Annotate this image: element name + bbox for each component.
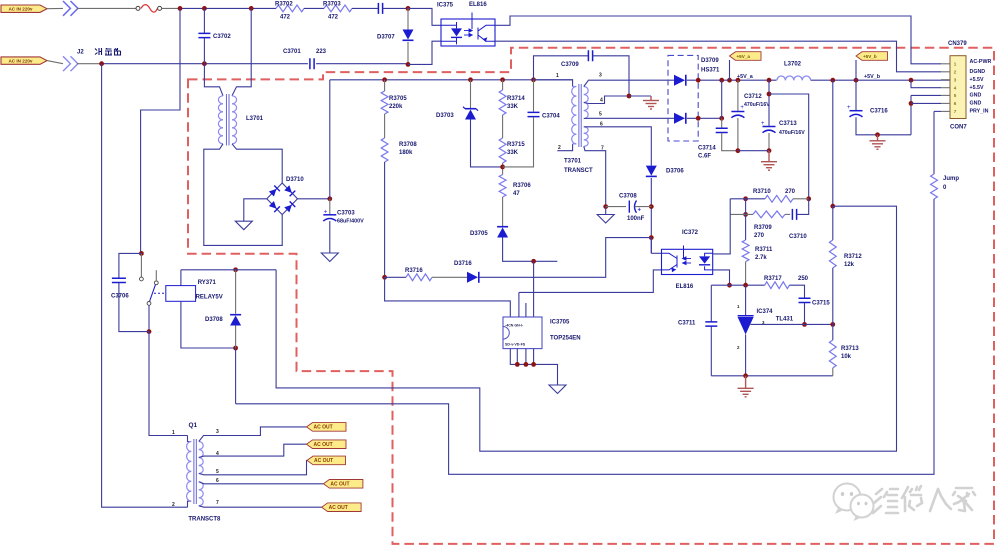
svg-text:D3710: D3710 [286, 177, 304, 183]
svg-text:R3713: R3713 [841, 346, 859, 352]
svg-text:CON7: CON7 [950, 125, 967, 131]
flag +5V_b [856, 52, 888, 61]
wire L3701 left top [204, 64, 223, 96]
wire [407, 42, 409, 65]
capacitor C3716 [847, 105, 863, 117]
bridge diode 4 [284, 201, 295, 212]
resistor R3713 [829, 340, 836, 368]
svg-text:AC IN 220v: AC IN 220v [8, 6, 32, 11]
wire fb bottom rail [711, 375, 833, 377]
svg-text:C3715: C3715 [812, 301, 830, 307]
wire IC3705 stub pin [525, 303, 527, 317]
junction [719, 116, 724, 121]
junction [531, 259, 536, 264]
wire Q1 pin2 bend [188, 501, 192, 507]
wire pin5 [584, 117, 674, 119]
svg-text:+5V_b: +5V_b [863, 54, 877, 59]
capacitor C3709 [588, 50, 592, 61]
switch contact 2 [154, 281, 158, 285]
wire stub NC [155, 270, 157, 281]
wire [407, 8, 409, 29]
junction [524, 362, 529, 367]
wire relay top [181, 269, 276, 271]
wire [745, 199, 747, 215]
resistor R3705 [381, 91, 388, 114]
wire [329, 221, 331, 253]
capacitor C3713 [761, 121, 776, 133]
wire [832, 324, 834, 340]
wire [737, 118, 739, 151]
svg-text:EL816: EL816 [676, 284, 694, 290]
connector CON7 body [950, 56, 966, 119]
wire PRY_IN down [933, 111, 935, 174]
svg-text:R3712: R3712 [844, 254, 862, 260]
svg-text:TRANSCT: TRANSCT [564, 168, 593, 174]
svg-text:470uF/16V: 470uF/16V [779, 130, 805, 136]
wire [47, 61, 63, 64]
ground chassis bridge [235, 221, 252, 230]
svg-text:TL431: TL431 [776, 317, 794, 323]
wire [384, 162, 386, 277]
svg-text:C3701: C3701 [283, 49, 301, 55]
wire [722, 133, 738, 151]
ground earth pin4 [643, 96, 659, 109]
resistor R3709 [753, 211, 785, 218]
svg-text:3: 3 [216, 429, 219, 435]
junction [99, 61, 104, 66]
wire clamp to drain [503, 238, 558, 262]
wire Q1 pin1 bend [188, 436, 192, 442]
flag AC IN 1 [1, 5, 47, 12]
wire [235, 270, 237, 314]
capacitor C3711 [705, 322, 717, 326]
svg-text:IC372: IC372 [682, 230, 699, 236]
pin 5 stub [941, 94, 950, 96]
svg-text:C3708: C3708 [619, 194, 637, 200]
svg-text:AC OUT: AC OUT [314, 442, 333, 448]
svg-text:+5V_b: +5V_b [864, 74, 881, 80]
switch lever [150, 285, 156, 302]
wire D3706 down [650, 178, 652, 253]
pin 3 stub [941, 79, 950, 81]
svg-text:R3702: R3702 [275, 1, 293, 7]
svg-text:RELAY5V: RELAY5V [196, 295, 223, 301]
wire pin4 to gnd [629, 95, 651, 97]
diode D3708 [230, 315, 241, 326]
svg-text:+: + [638, 208, 642, 214]
Q1 secondary upper [199, 442, 203, 474]
svg-text:D3703: D3703 [436, 113, 454, 119]
TL431 IC374 [738, 316, 754, 335]
wire [502, 80, 504, 90]
L3702 mask [777, 75, 811, 85]
wire AC OUT 1 [199, 427, 307, 442]
wire +5V rail [687, 79, 950, 81]
svg-text:R3709: R3709 [754, 225, 772, 231]
wire rail1 mid [180, 7, 276, 9]
junction [139, 251, 144, 256]
wire [502, 197, 504, 227]
junction [382, 275, 387, 280]
wire L3701 left bottom loop [204, 144, 282, 246]
svg-text:HS371: HS371 [701, 68, 720, 74]
svg-text:270: 270 [785, 189, 796, 195]
svg-text:+: + [324, 209, 328, 215]
IC375 arrows [464, 29, 472, 37]
wire sense to R3710 [769, 94, 809, 199]
svg-text:250: 250 [798, 276, 809, 282]
pin 1 stub [941, 63, 950, 65]
junction [727, 283, 732, 288]
junction [649, 204, 654, 209]
svg-text:Q1: Q1 [189, 422, 198, 429]
svg-text:TRANSCT8: TRANSCT8 [188, 517, 221, 523]
svg-text:100nF: 100nF [627, 216, 645, 222]
connector chevrons J1 [63, 1, 78, 16]
inductor L3702 [777, 76, 811, 80]
wire pin2 [557, 144, 572, 151]
svg-text:33K: 33K [507, 104, 519, 110]
transformer T3701 primary winding [572, 87, 577, 144]
wire [235, 326, 237, 349]
junction [202, 6, 207, 11]
svg-text:2: 2 [172, 502, 175, 508]
wire B+ bus [330, 79, 573, 81]
ground chassis IC3705 [549, 385, 566, 394]
ground earth C3713 [761, 151, 777, 171]
wire to switch [141, 8, 180, 253]
junction [603, 204, 608, 209]
svg-text:T3701: T3701 [564, 159, 582, 165]
op-amp IC375 opto EL816 box [441, 19, 495, 46]
wire C3709 left [534, 56, 589, 80]
resistor R3717 [765, 282, 790, 289]
svg-text:DGND: DGND [970, 69, 986, 75]
IC375 transistor [472, 13, 495, 42]
junction [696, 116, 701, 121]
wire flag stem b [855, 60, 857, 80]
svg-text:D3707: D3707 [377, 35, 395, 41]
connector chevrons J2 [63, 56, 78, 71]
inductor L3701 windings [218, 96, 236, 144]
transformer Q1 primary [187, 442, 192, 502]
wire pin3 [584, 80, 674, 86]
svg-text:C3704: C3704 [542, 114, 560, 120]
svg-text:L3701: L3701 [246, 116, 264, 122]
wire [235, 348, 237, 404]
pin 4 stub [941, 87, 950, 89]
svg-text:AC-PWR: AC-PWR [970, 59, 992, 65]
wire C3716 bottom [856, 117, 911, 135]
wire [832, 80, 834, 206]
svg-text:R3706: R3706 [513, 183, 531, 189]
svg-text:AC OUT: AC OUT [314, 425, 333, 431]
wire [329, 199, 331, 214]
junction [767, 78, 772, 83]
svg-text:R3714: R3714 [507, 96, 525, 102]
resistor Jump [931, 174, 938, 199]
junction [249, 6, 254, 11]
svg-text:C3711: C3711 [678, 321, 696, 327]
wire flag stem a [729, 60, 731, 80]
svg-text:C3703: C3703 [337, 211, 355, 217]
wire DGND net [495, 41, 941, 72]
relay link dotted [154, 292, 166, 294]
wire [352, 7, 378, 9]
svg-text:47: 47 [513, 191, 520, 197]
svg-text:7: 7 [954, 109, 957, 114]
capacitor C3701 [310, 58, 314, 69]
wire opto collector up [713, 199, 731, 254]
diode D3705 [497, 227, 508, 238]
diode D3709 lower [674, 113, 686, 124]
wire IC3705 M pin [518, 292, 520, 317]
flag +5V_a [730, 52, 762, 61]
svg-text:+5V_a: +5V_a [737, 54, 751, 59]
svg-text:R3715: R3715 [507, 142, 525, 148]
svg-text:33K: 33K [507, 150, 519, 156]
svg-text:IC374: IC374 [757, 309, 774, 315]
wire lower diode out [687, 117, 722, 119]
svg-text:470uF/16V: 470uF/16V [744, 102, 770, 108]
diode D3716 [467, 272, 479, 283]
wire AC OUT 4 [199, 482, 324, 484]
wire [119, 283, 149, 332]
junction [202, 61, 207, 66]
wire B+ riser [329, 80, 331, 199]
wire pin4 [584, 96, 629, 104]
junction [500, 165, 505, 170]
wire [832, 368, 834, 376]
junction [233, 346, 238, 351]
svg-text:+: + [847, 105, 851, 111]
switch contact 1 [140, 277, 144, 281]
svg-text:C.6F: C.6F [698, 154, 711, 160]
svg-text:68uF/400V: 68uF/400V [337, 219, 364, 225]
T3701 secondary winding lower [584, 127, 588, 147]
flag AC OUT 1 [307, 423, 347, 432]
resistor R3711 [742, 240, 749, 262]
svg-text:C3702: C3702 [213, 34, 231, 40]
junction [743, 283, 748, 288]
wire [470, 80, 472, 108]
wire [606, 206, 626, 208]
svg-text:12k: 12k [844, 262, 855, 268]
capacitor C3708 [629, 201, 636, 213]
pin 2 stub [941, 71, 950, 73]
wire [793, 198, 809, 200]
capacitor C3706 [112, 278, 126, 282]
ground earth TL431 [738, 376, 754, 397]
wire L3701 right top [232, 8, 251, 95]
wire [573, 143, 577, 145]
wire rail1 gray [162, 7, 181, 9]
svg-text:5: 5 [954, 93, 957, 98]
wire [737, 80, 739, 111]
wire relay coil bottom [181, 301, 236, 348]
junction [147, 329, 152, 334]
capacitor C3702 [198, 33, 210, 37]
capacitor C3704 [528, 112, 540, 116]
svg-text:R3705: R3705 [389, 96, 407, 102]
junction [727, 78, 732, 83]
flag AC OUT 5 [322, 503, 362, 512]
wire [148, 305, 150, 331]
pin 7 stub [941, 110, 950, 112]
diode D3703 zener [463, 107, 478, 120]
resistor R3706 [499, 175, 506, 198]
capacitor C3703 [323, 209, 336, 221]
wire [432, 276, 467, 278]
junction [382, 77, 387, 82]
svg-text:3: 3 [599, 73, 602, 79]
wire [832, 206, 834, 240]
IC372 arrows [683, 257, 691, 265]
bridge diode 2 [284, 185, 295, 196]
wire [738, 150, 769, 152]
wire to IC375 pin1 [408, 8, 441, 25]
svg-text:J2: J2 [77, 50, 84, 56]
wire [573, 86, 577, 88]
watermark text [873, 486, 975, 513]
svg-text:7: 7 [216, 500, 219, 506]
svg-text:C3713: C3713 [779, 121, 797, 127]
wire +5.5V pin4 [911, 80, 941, 88]
wire [384, 114, 386, 138]
svg-text:EL816: EL816 [469, 2, 487, 8]
capacitor C3714 [716, 128, 728, 132]
wire M to opto IC372 [519, 270, 662, 293]
wire to Q1 pin1 [149, 332, 188, 436]
wire [304, 7, 324, 9]
svg-text:GND: GND [970, 101, 982, 107]
junction [767, 92, 772, 97]
Q1 secondary lower [199, 482, 203, 506]
junction [719, 78, 724, 83]
svg-text:C3706: C3706 [111, 294, 129, 300]
ground chassis pin7 [597, 215, 614, 224]
junction [468, 77, 473, 82]
wire [385, 276, 406, 278]
svg-text:+5.5V: +5.5V [970, 77, 984, 83]
svg-text:+: + [761, 121, 765, 127]
svg-text:2: 2 [558, 145, 561, 151]
wire [533, 349, 535, 365]
junction [500, 77, 505, 82]
svg-text:5: 5 [599, 112, 602, 118]
svg-text:472: 472 [328, 15, 339, 21]
svg-text:1: 1 [954, 61, 957, 66]
watermark wechat logo [834, 484, 874, 522]
junction [736, 148, 741, 153]
junction [649, 235, 654, 240]
wire AC OUT 5 [199, 506, 322, 507]
wire opto emitter down [713, 270, 730, 285]
wire opto anode in [651, 252, 661, 254]
isolation boundary (red dashed) [188, 48, 994, 544]
wire [745, 214, 747, 240]
svg-text:D3716: D3716 [454, 261, 472, 267]
wire [635, 206, 652, 208]
wire [471, 120, 503, 167]
wire [383, 7, 408, 9]
svg-text:AC IN 220v: AC IN 220v [8, 58, 32, 63]
svg-text:+5.5V: +5.5V [970, 85, 984, 91]
svg-text:CN379: CN379 [948, 41, 967, 47]
wire [502, 115, 504, 138]
ground chassis C3703 [321, 253, 338, 262]
diode box D3709 dashed [668, 55, 698, 141]
wire bridge minus [244, 199, 267, 221]
bridge rectifier D3710 diamond [267, 183, 298, 215]
wire [203, 8, 205, 33]
wire drain to IC3705 [533, 261, 535, 317]
junction [743, 212, 748, 217]
junction [909, 101, 914, 106]
svg-text:RY371: RY371 [198, 280, 217, 286]
wire [516, 349, 518, 365]
junction [406, 6, 411, 11]
wire pin6 [584, 127, 652, 166]
svg-text:R3708: R3708 [399, 142, 417, 148]
svg-text:C3714: C3714 [698, 146, 716, 152]
pin 6 stub [941, 102, 950, 104]
flag AC OUT 4 [323, 480, 363, 489]
op-amp IC3705 TOP254EN box [503, 317, 542, 349]
bridge diode 1 [269, 186, 280, 197]
svg-text:R3703: R3703 [323, 1, 341, 7]
wire [119, 253, 141, 278]
diode D3706 [646, 166, 657, 177]
op-amp IC372 opto EL816 box [662, 249, 713, 274]
svg-text:5: 5 [216, 469, 219, 475]
Q1 core [194, 439, 196, 504]
wire rail2 [102, 63, 308, 65]
wire [502, 163, 504, 175]
junction [806, 196, 811, 201]
junction [743, 373, 748, 378]
resistor R3708 [381, 138, 388, 162]
junction [854, 78, 859, 83]
svg-text:472: 472 [280, 15, 291, 21]
wire [804, 303, 806, 325]
wire TL431 ref [751, 323, 833, 325]
wire [768, 133, 770, 151]
junction [830, 322, 835, 327]
svg-text:IC375: IC375 [437, 3, 454, 9]
svg-text:-4CN GN-I-: -4CN GN-I- [505, 324, 524, 328]
svg-text:180k: 180k [399, 150, 413, 156]
svg-text:+5V_a: +5V_a [737, 74, 754, 80]
wire gnd chain [910, 95, 912, 134]
wire [316, 63, 408, 65]
T3701 core [579, 84, 581, 147]
junction [406, 62, 411, 67]
wire [533, 80, 535, 112]
svg-text:IC3705: IC3705 [550, 320, 570, 326]
resistor R3703 [324, 5, 352, 12]
wire to IC3705 C pin [385, 277, 511, 317]
wire GND pin5 [911, 94, 941, 96]
svg-text:D3709: D3709 [701, 58, 719, 64]
wire to fuse [77, 7, 136, 9]
svg-text:6: 6 [954, 101, 957, 106]
wire [730, 198, 765, 200]
svg-text:D3705: D3705 [470, 231, 488, 237]
svg-text:7: 7 [601, 146, 604, 152]
wire [650, 238, 652, 254]
IC375 LED [441, 22, 462, 44]
